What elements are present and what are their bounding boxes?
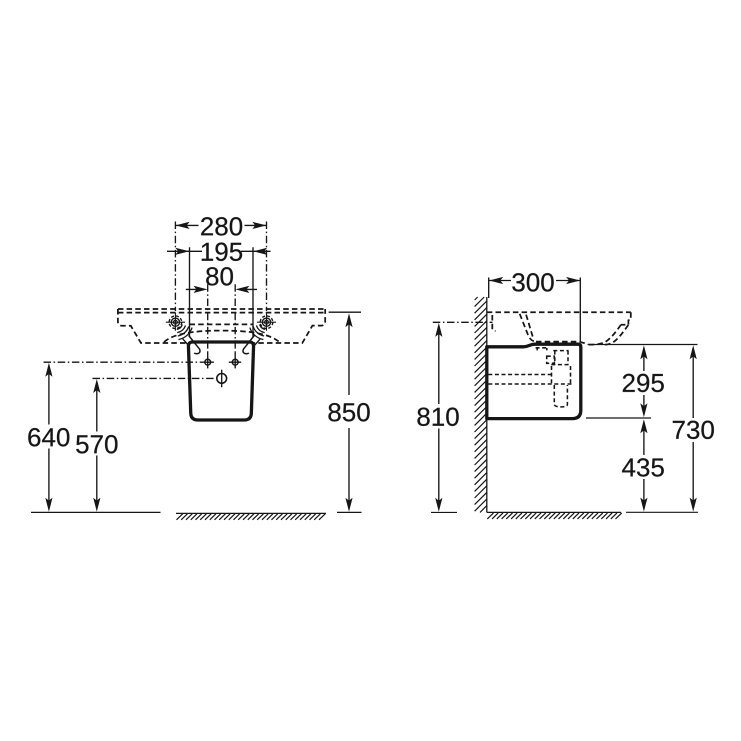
floor hatch side xyxy=(487,513,622,519)
fixing mark right xyxy=(252,339,260,348)
trap cup xyxy=(554,385,567,407)
fixing hole left xyxy=(205,359,211,365)
dim 810 xyxy=(433,321,493,323)
dim 850 xyxy=(329,311,361,313)
floor tick right xyxy=(626,511,698,513)
tap hole right xyxy=(260,316,273,329)
semi-pedestal front xyxy=(188,342,253,420)
tailpipe xyxy=(553,351,568,365)
contour arcs right tap xyxy=(250,325,265,340)
contour arcs left tap xyxy=(177,325,192,340)
overflow square xyxy=(547,356,555,363)
dim 295 xyxy=(643,351,645,412)
semi-pedestal side xyxy=(487,344,581,418)
centerline hole right xyxy=(234,284,236,352)
outlet pipe to wall xyxy=(488,375,571,385)
extension line mid (pedestal bottom) xyxy=(586,417,651,419)
dim 435 xyxy=(643,425,645,505)
hanger hook right xyxy=(243,335,254,353)
centerline tap right xyxy=(266,222,268,312)
fixing hole right xyxy=(232,359,238,365)
centerline tap left xyxy=(174,222,176,312)
basin underside dashed curve xyxy=(164,331,279,342)
dim 280 xyxy=(175,224,266,226)
trap nut xyxy=(551,365,571,385)
wall hatch xyxy=(475,297,487,512)
dim 195 xyxy=(167,250,271,252)
dim 570 xyxy=(93,377,217,379)
drain flange xyxy=(536,348,549,351)
floor line side xyxy=(487,511,621,513)
floor hatch front xyxy=(176,512,326,514)
tap hole left xyxy=(169,316,182,329)
dim 730 xyxy=(692,351,694,505)
dim 300 xyxy=(489,278,581,342)
floor tick 850 xyxy=(337,511,362,513)
hanger hook left xyxy=(189,335,200,353)
extension lines 195 xyxy=(190,247,254,336)
drain hole center xyxy=(217,374,227,384)
washbasin front outline xyxy=(118,308,325,310)
washbasin side profile xyxy=(487,311,631,313)
floor tick 810 xyxy=(431,511,457,513)
dim 640 xyxy=(44,361,202,363)
basin deck dashed line xyxy=(190,323,253,325)
fixing mark left xyxy=(183,339,191,348)
extension line top (basin bottom) xyxy=(588,344,698,346)
floor line left xyxy=(31,511,161,513)
wall line xyxy=(486,297,488,512)
dim 80 xyxy=(186,288,257,290)
centerline hole left xyxy=(207,284,209,352)
